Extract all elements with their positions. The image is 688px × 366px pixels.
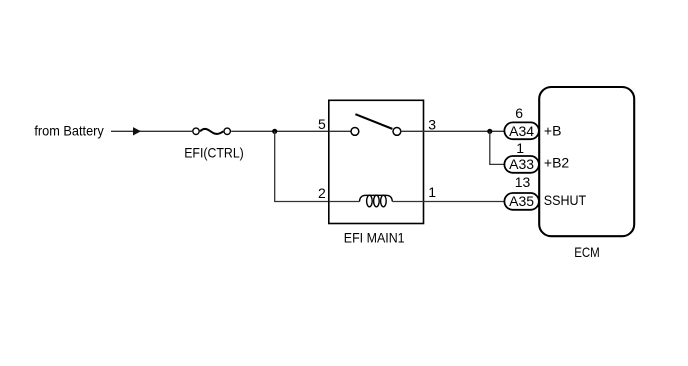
svg-text:A35: A35 xyxy=(509,193,534,209)
svg-text:6: 6 xyxy=(515,105,523,121)
svg-text:5: 5 xyxy=(318,116,326,132)
svg-text:+B2: +B2 xyxy=(544,155,570,171)
svg-text:3: 3 xyxy=(428,116,436,132)
svg-text:2: 2 xyxy=(318,185,326,201)
svg-text:+B: +B xyxy=(544,123,562,139)
svg-text:A34: A34 xyxy=(509,123,534,139)
svg-text:1: 1 xyxy=(428,184,436,200)
svg-text:ECM: ECM xyxy=(574,244,600,260)
svg-text:13: 13 xyxy=(515,174,531,190)
svg-text:from Battery: from Battery xyxy=(34,123,103,139)
svg-text:EFI MAIN1: EFI MAIN1 xyxy=(344,230,405,246)
svg-text:A33: A33 xyxy=(509,156,534,172)
svg-text:1: 1 xyxy=(516,140,524,156)
svg-text:EFI(CTRL): EFI(CTRL) xyxy=(184,145,244,161)
svg-text:SSHUT: SSHUT xyxy=(544,192,587,208)
